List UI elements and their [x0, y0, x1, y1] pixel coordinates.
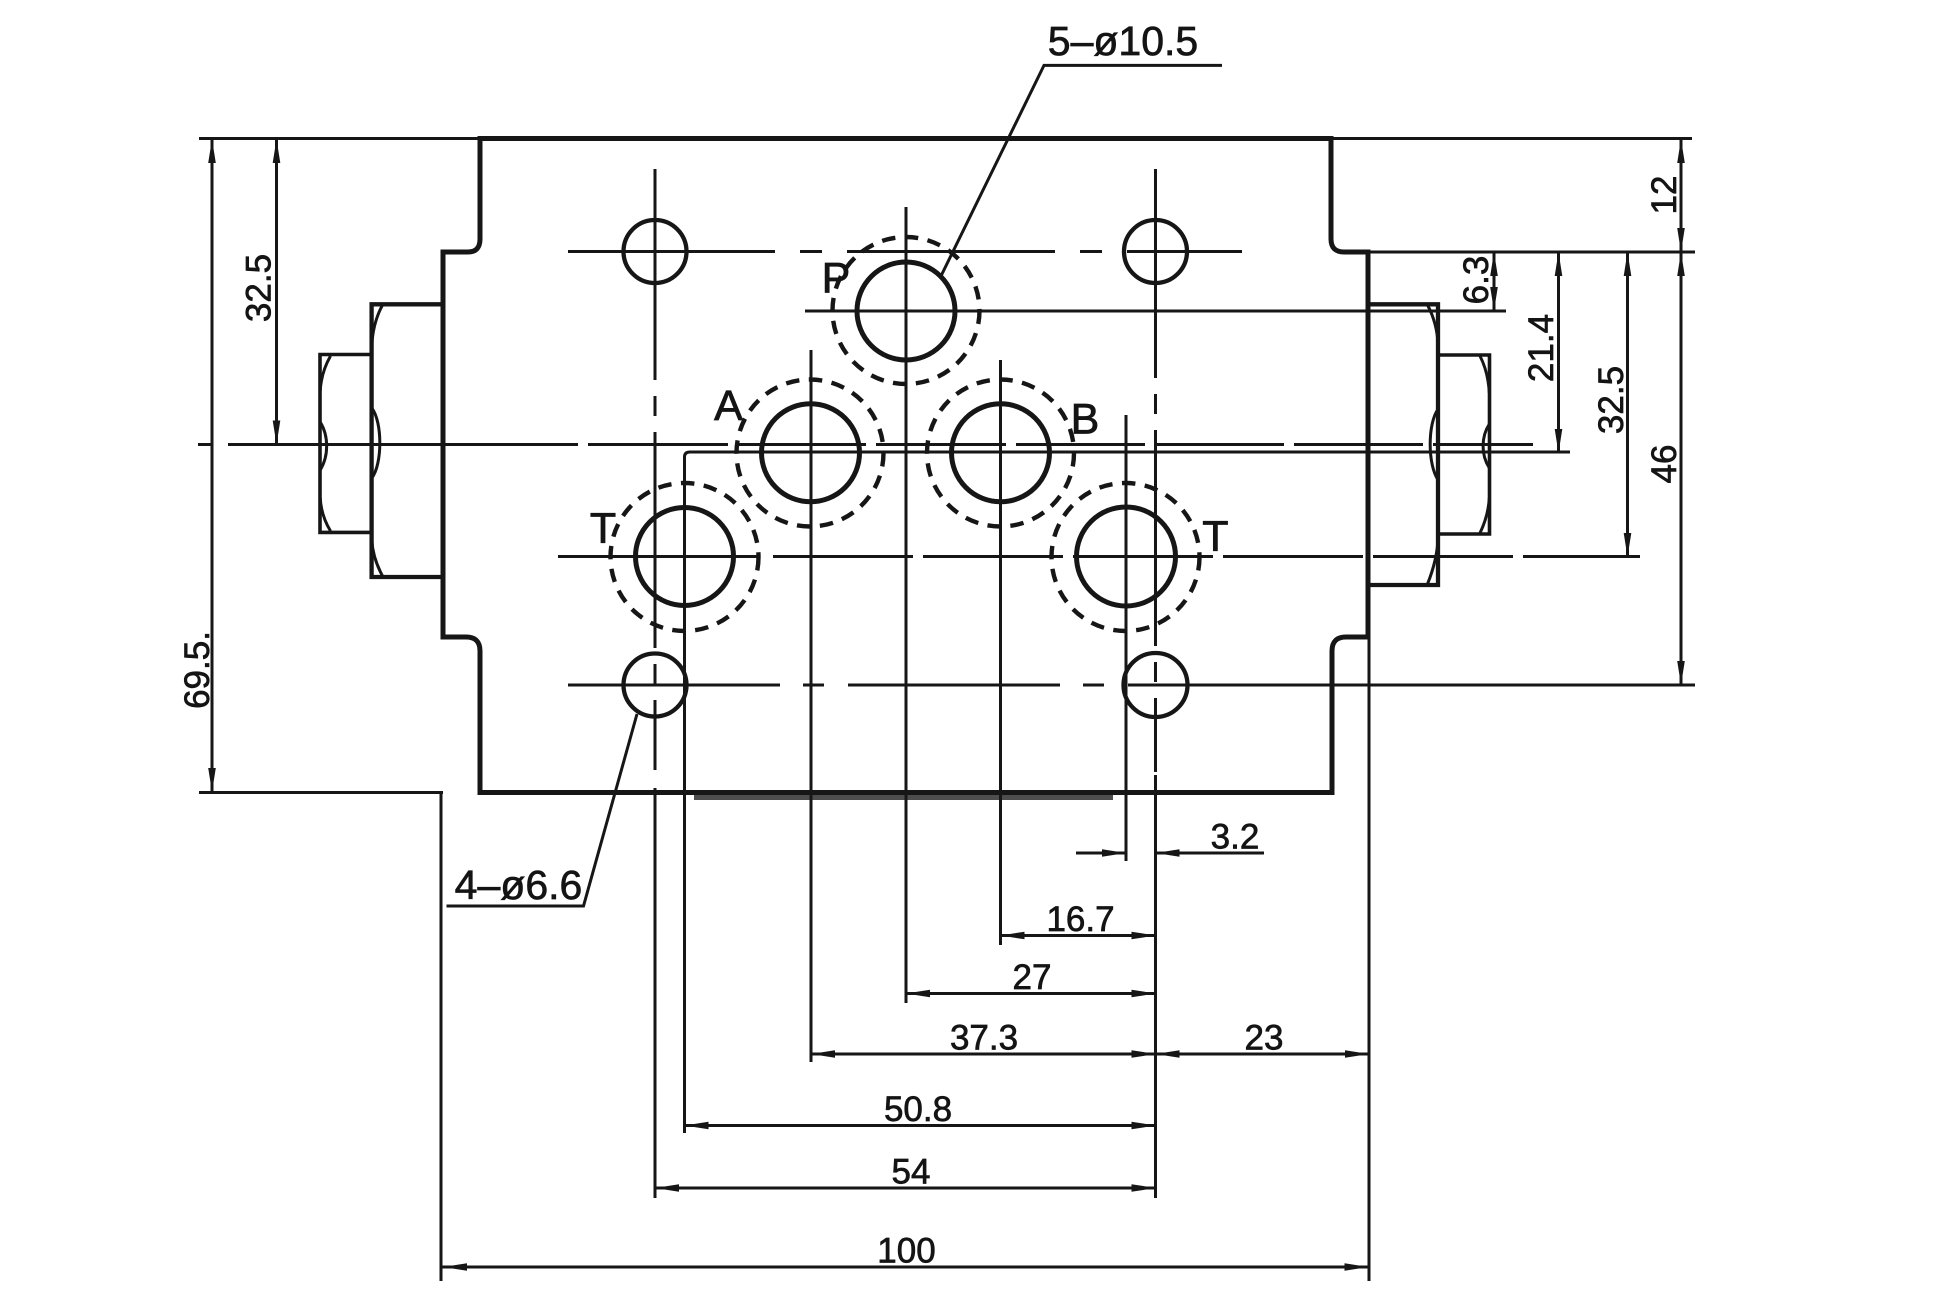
svg-text:3.2: 3.2	[1211, 818, 1260, 857]
svg-text:32.5: 32.5	[240, 254, 279, 322]
extension line top left	[199, 137, 480, 140]
arrow 54 right	[1132, 1184, 1156, 1192]
svg-text:5–ø10.5: 5–ø10.5	[1048, 18, 1198, 64]
extension line bolt column left lower	[654, 788, 657, 1198]
arrow 21.4 down	[1555, 429, 1563, 453]
right nut large chamfer arc top	[1428, 305, 1439, 346]
dimension 27 line	[906, 992, 1156, 995]
left nut large chamfer arc top	[372, 305, 383, 346]
dimension 46 line	[1680, 252, 1683, 685]
dimension 6.3 line	[1493, 252, 1496, 311]
port B dashed circle	[927, 380, 1074, 527]
svg-text:50.8: 50.8	[884, 1090, 952, 1129]
left nut small lens arc	[320, 422, 326, 470]
centerline bolt row bottom	[568, 684, 1242, 687]
centerline T row	[558, 555, 1640, 558]
svg-text:23: 23	[1245, 1019, 1284, 1058]
dimension 16.7 line	[1001, 934, 1156, 937]
right nut small hex rect	[1438, 355, 1490, 534]
dimension 100 line	[442, 1266, 1369, 1269]
dimension 32.5 right line	[1626, 252, 1629, 557]
extension line body left lower	[440, 794, 443, 1281]
port T left solid circle	[636, 508, 734, 606]
arrow 32.5R up	[1624, 252, 1632, 276]
left nut large chamfer arc bottom	[372, 540, 383, 576]
centerline bolt row top	[568, 250, 1242, 253]
arrow 23 right	[1345, 1050, 1369, 1058]
arrow 6.3 up	[1490, 252, 1498, 276]
arrow 32.5L up	[273, 139, 281, 163]
svg-text:69.5.: 69.5.	[178, 631, 217, 709]
bottom face edge (gray)	[694, 795, 1113, 800]
line P row	[805, 310, 1506, 313]
svg-text:A: A	[714, 382, 743, 430]
left nut small hex rect	[320, 355, 372, 533]
svg-text:27: 27	[1013, 958, 1052, 997]
svg-text:100: 100	[877, 1232, 935, 1271]
port A dashed circle	[737, 380, 884, 527]
svg-text:16.7: 16.7	[1046, 900, 1114, 939]
svg-text:B: B	[1071, 396, 1100, 444]
dimension 21.4 line	[1557, 252, 1560, 453]
right nut small lens arc	[1483, 424, 1489, 468]
arrow 12 up	[1677, 139, 1685, 163]
extension line bolt row right	[1242, 684, 1695, 687]
port T right solid circle	[1077, 507, 1176, 606]
left nut large hex rect	[372, 304, 443, 577]
extension line top right	[1331, 137, 1692, 140]
extension line step right	[1368, 251, 1695, 254]
arrow 3.2 left	[1156, 849, 1180, 857]
bolt hole top right	[1124, 220, 1187, 283]
arrowheads	[208, 139, 1685, 1271]
arrow 27 right	[1132, 990, 1156, 998]
extension line T right column	[1125, 415, 1128, 861]
left nut small chamfer arc top	[320, 356, 330, 391]
extension line B column	[999, 360, 1002, 945]
svg-text:6.3: 6.3	[1457, 256, 1496, 305]
arrow 12 down	[1677, 228, 1685, 252]
svg-text:32.5: 32.5	[1592, 366, 1631, 434]
leader 5-dia10.5	[941, 65, 1222, 276]
extension line bottom left	[199, 791, 443, 794]
svg-text:P: P	[822, 255, 851, 303]
arrow 69.5 up	[208, 139, 216, 163]
port T left dashed circle	[611, 483, 759, 631]
centerline bolt column left	[654, 169, 657, 770]
right nut small chamfer arc bottom	[1480, 498, 1489, 533]
arrow 69.5 down	[208, 768, 216, 792]
port T right dashed circle	[1052, 483, 1200, 631]
right nut large hex rect	[1368, 304, 1438, 585]
dimension 37.3 line	[811, 1053, 1156, 1056]
svg-text:12: 12	[1645, 176, 1684, 215]
arrow 16.7 left	[1001, 932, 1025, 940]
centerline bolt column right	[1154, 169, 1157, 772]
arrow 37.3 left	[811, 1050, 835, 1058]
arrow 21.4 up	[1555, 252, 1563, 276]
dimension 32.5 left line	[275, 139, 278, 445]
right nut large chamfer arc bottom	[1428, 537, 1439, 584]
dimension 3.2 lines	[1076, 852, 1264, 855]
arrow 27 left	[906, 990, 930, 998]
dimension 69.5 line	[211, 139, 214, 792]
svg-text:T: T	[1202, 513, 1228, 561]
bolt hole bottom right	[1124, 653, 1188, 717]
dimension 23 line	[1156, 1053, 1370, 1056]
bolt hole bottom left	[624, 654, 687, 717]
arrow 50.8 right	[1132, 1122, 1156, 1130]
extension line bolt column right lower	[1154, 775, 1157, 1198]
svg-text:21.4: 21.4	[1522, 314, 1561, 382]
dimension 12 line	[1680, 139, 1683, 252]
bolt hole top left	[624, 220, 687, 283]
arrow 3.2 right	[1102, 849, 1126, 857]
extension line body right lower	[1368, 639, 1371, 1281]
centerline main axis	[198, 443, 1533, 446]
svg-text:4–ø6.6: 4–ø6.6	[455, 862, 583, 908]
right nut large lens arc	[1430, 409, 1438, 480]
arrow 16.7 right	[1132, 932, 1156, 940]
svg-text:46: 46	[1645, 445, 1684, 484]
port A solid circle	[762, 404, 860, 502]
left nut small chamfer arc bottom	[320, 498, 330, 531]
line AB port row with step	[685, 452, 1571, 1133]
arrow 100 left	[443, 1263, 467, 1271]
port B solid circle	[952, 404, 1050, 502]
arrow 46 up	[1677, 252, 1685, 276]
body outline	[443, 139, 1368, 793]
svg-text:37.3: 37.3	[950, 1019, 1018, 1058]
svg-text:T: T	[590, 505, 616, 553]
extension line P column	[905, 207, 908, 1003]
arrow 46 down	[1677, 661, 1685, 685]
arrow 54 left	[655, 1184, 679, 1192]
arrow 6.3 down	[1490, 287, 1498, 311]
leader 4-dia6.6	[447, 714, 638, 906]
svg-text:54: 54	[892, 1153, 931, 1192]
left nut large lens arc	[372, 408, 380, 478]
arrow 32.5R down	[1624, 533, 1632, 557]
arrow 32.5L down	[273, 421, 281, 445]
port P dashed circle	[833, 237, 980, 384]
arrow 50.8 left	[685, 1122, 709, 1130]
dimension 50.8 line	[685, 1124, 1156, 1127]
arrow 23 left	[1156, 1050, 1180, 1058]
extension line A column	[810, 350, 813, 1062]
arrow 100 right	[1345, 1263, 1369, 1271]
arrow 37.3 right	[1132, 1050, 1156, 1058]
port P solid circle	[857, 262, 955, 360]
right nut small chamfer arc top	[1480, 356, 1489, 393]
dimension 54 line	[655, 1187, 1156, 1190]
